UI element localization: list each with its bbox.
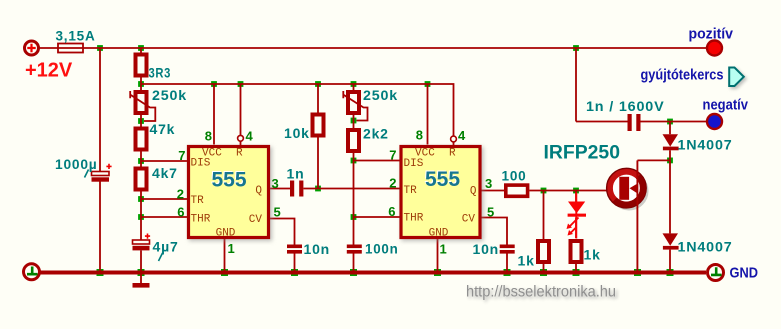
svg-text:4: 4 bbox=[246, 129, 254, 144]
svg-text:THR: THR bbox=[191, 214, 211, 226]
wire pin1 U1 to rail bbox=[224, 239, 226, 271]
wire 1000u column upper bbox=[99, 48, 101, 172]
svg-text:2k2: 2k2 bbox=[363, 126, 389, 142]
svg-text:7: 7 bbox=[389, 148, 396, 163]
svg-text:Q: Q bbox=[255, 185, 262, 197]
svg-text:GND: GND bbox=[429, 228, 449, 240]
svg-text:Q: Q bbox=[470, 186, 477, 198]
svg-text:GND: GND bbox=[730, 265, 759, 282]
IC U1 555 bbox=[189, 147, 269, 240]
resistor R2 47k bbox=[136, 129, 147, 150]
svg-text:1k: 1k bbox=[584, 247, 601, 263]
svg-text:DIS: DIS bbox=[191, 158, 211, 170]
junction squares group bbox=[97, 45, 674, 276]
ground symbol right GND bbox=[708, 265, 724, 281]
svg-text:1N4007: 1N4007 bbox=[678, 137, 733, 153]
svg-text:1: 1 bbox=[440, 242, 447, 257]
svg-text:pozitív: pozitív bbox=[689, 26, 734, 43]
node THR U2 bbox=[351, 214, 357, 220]
node coupling cap to TR U2 bbox=[315, 186, 321, 192]
terminal negativ bbox=[707, 114, 722, 129]
node vcc bus at pin8 U2 bbox=[425, 81, 431, 87]
svg-text:http://bsselektronika.hu: http://bsselektronika.hu bbox=[466, 284, 616, 301]
wire to HV cap bbox=[576, 121, 628, 123]
wire Q U2 to 100 resistor bbox=[481, 190, 504, 192]
arrow ignition coil connector bbox=[729, 68, 744, 87]
wire pin1 U2 to rail bbox=[437, 239, 439, 271]
node rail at 10n C2 bbox=[291, 269, 298, 276]
wire pin8 U1 drop bbox=[213, 84, 215, 145]
ground bar below rail bbox=[133, 274, 150, 285]
wire diode D1 top bbox=[669, 122, 671, 135]
node rail at pin1 U1 bbox=[221, 269, 228, 276]
node rail at 4u7 bbox=[138, 269, 145, 276]
ground rail bbox=[40, 271, 707, 275]
svg-text:+12V: +12V bbox=[25, 60, 73, 82]
wire 3R3 top bbox=[140, 48, 142, 53]
wire 1000u column lower bbox=[99, 182, 101, 271]
node rail at pin1 U2 bbox=[434, 269, 441, 276]
wire TR U1 bbox=[141, 198, 188, 200]
svg-text:2: 2 bbox=[389, 176, 396, 191]
capacitor C4 1n coupling bbox=[290, 181, 303, 197]
svg-text:DIS: DIS bbox=[404, 158, 424, 170]
node THR U1 bbox=[138, 214, 144, 220]
node gate at LED bbox=[573, 188, 579, 194]
svg-text:4k7: 4k7 bbox=[152, 165, 178, 181]
wire CV U2 to 10n C5 bbox=[481, 218, 507, 245]
capacitor C2 10n bbox=[287, 245, 302, 254]
label C1 mu tail bbox=[85, 170, 89, 178]
svg-text:250k: 250k bbox=[152, 87, 187, 103]
wire pin8 U2 drop bbox=[427, 84, 429, 145]
wire 47k to 4k7 bbox=[140, 152, 142, 167]
wire 4k7 to 4u7 cap bbox=[140, 192, 142, 241]
svg-text:555: 555 bbox=[425, 168, 460, 191]
node rail at MOSFET source bbox=[634, 269, 641, 276]
wire 2k2 to 100n cap bbox=[353, 153, 355, 245]
wire 1k R7 drop bbox=[543, 191, 545, 242]
svg-text:negatív: negatív bbox=[703, 97, 749, 114]
wire MOSFET source down bbox=[636, 204, 638, 271]
svg-text:CV: CV bbox=[249, 214, 263, 226]
svg-text:3: 3 bbox=[272, 176, 279, 191]
svg-text:5: 5 bbox=[274, 205, 281, 220]
capacitor C3 4u7 electrolytic bbox=[133, 234, 151, 251]
resistor R1 3R3 bbox=[136, 55, 147, 76]
wire drain node to diode D2 bbox=[669, 160, 671, 233]
resistor R7 1k bbox=[538, 241, 549, 262]
resistor R5 2k2 bbox=[348, 130, 359, 151]
wire vcc bus bbox=[141, 84, 454, 136]
svg-text:1n / 1600V: 1n / 1600V bbox=[586, 98, 665, 114]
wire drain horizontal bbox=[637, 159, 670, 161]
node HV cap to diode D1 bbox=[667, 119, 673, 125]
wire LED to 1k R8 bbox=[575, 218, 577, 239]
node gate at 1k R7 bbox=[541, 188, 547, 194]
node drain to diode column bbox=[667, 158, 673, 164]
wire fuse to pozitiv terminal bbox=[83, 47, 707, 49]
wire 4u7 to rail bbox=[140, 251, 142, 271]
svg-text:1k: 1k bbox=[518, 253, 535, 269]
svg-text:gyújtótekercs: gyújtótekercs bbox=[641, 67, 724, 84]
svg-text:10n: 10n bbox=[304, 241, 331, 257]
svg-text:CV: CV bbox=[462, 214, 476, 226]
capacitor C6 100n bbox=[347, 245, 362, 254]
svg-text:R: R bbox=[236, 148, 243, 160]
node top wire at output column bbox=[573, 45, 579, 51]
node pot P2 wiper bbox=[351, 118, 357, 124]
svg-text:1000µ: 1000µ bbox=[55, 156, 98, 172]
svg-text:100: 100 bbox=[502, 168, 527, 184]
node rail at 1k R7 bbox=[540, 269, 547, 276]
svg-text:1N4007: 1N4007 bbox=[678, 239, 733, 255]
terminal pozitiv bbox=[707, 41, 722, 56]
label C3 mu tail bbox=[159, 253, 163, 261]
wire THR U2 bbox=[354, 216, 400, 218]
wire pot P1 to 47k bbox=[140, 115, 142, 127]
svg-text:2: 2 bbox=[177, 187, 184, 202]
svg-text:6: 6 bbox=[388, 204, 395, 219]
wire 10n C2 to rail bbox=[294, 254, 296, 271]
node vcc bus at 250k P2 bbox=[351, 81, 357, 87]
svg-text:THR: THR bbox=[404, 213, 424, 225]
wire 100 resistor to gate bbox=[529, 190, 619, 192]
wire pot P2 to 2k2 bbox=[353, 115, 355, 128]
diode D1 1N4007 bbox=[663, 134, 679, 150]
node rail at 100n bbox=[350, 269, 357, 276]
wires group bbox=[39, 48, 707, 271]
ground symbol left bbox=[24, 264, 40, 280]
pin 4 U1 reset circle bbox=[238, 135, 244, 141]
svg-text:10k: 10k bbox=[284, 125, 310, 141]
svg-text:IRFP250: IRFP250 bbox=[544, 143, 621, 164]
wire diode D2 to rail bbox=[669, 250, 671, 271]
svg-text:5: 5 bbox=[487, 205, 494, 220]
wire 1n cap to TR U2 bbox=[304, 188, 400, 190]
MOSFET Q1 IRFP250 bbox=[607, 168, 647, 208]
node vcc bus at pin8 U1 bbox=[211, 81, 217, 87]
svg-text:8: 8 bbox=[205, 129, 212, 144]
svg-text:1: 1 bbox=[228, 241, 235, 256]
wire HV cap to negativ terminal bbox=[640, 121, 707, 123]
fuse F1 3,15A bbox=[58, 44, 83, 53]
wire 100n to rail bbox=[353, 254, 355, 271]
svg-text:3R3: 3R3 bbox=[149, 65, 172, 81]
wire Q U1 to 1n cap bbox=[270, 188, 291, 190]
wire MOSFET drain up bbox=[636, 160, 638, 173]
resistor R8 1k bbox=[571, 241, 582, 262]
wire DIS U2 bbox=[354, 160, 400, 162]
IC U2 555 bbox=[401, 147, 480, 240]
diode D2 1N4007 bbox=[663, 233, 679, 249]
wire pin4 U1 stub bbox=[240, 142, 242, 146]
node DIS U1 bbox=[138, 158, 144, 164]
svg-text:R: R bbox=[449, 148, 456, 160]
svg-text:8: 8 bbox=[416, 128, 423, 143]
node top wire at 1000u column bbox=[97, 45, 103, 51]
capacitor C1 1000u electrolytic bbox=[92, 164, 112, 182]
terminal +12V bbox=[25, 41, 39, 55]
wire terminal to fuse bbox=[39, 47, 58, 49]
svg-text:47k: 47k bbox=[150, 121, 176, 137]
node rail at diode D2 bbox=[667, 269, 674, 276]
wire 10k top bbox=[317, 84, 319, 113]
node vcc bus at 10k bbox=[315, 81, 321, 87]
svg-text:7: 7 bbox=[178, 148, 185, 163]
wire diode D1 to drain node bbox=[669, 150, 671, 160]
wire 1k R8 to rail bbox=[575, 263, 577, 271]
wire THR U1 bbox=[141, 216, 188, 218]
svg-text:3,15A: 3,15A bbox=[56, 28, 96, 44]
capacitor C5 10n bbox=[500, 245, 515, 254]
potentiometer P1 250k body bbox=[136, 92, 147, 113]
node DIS U2 bbox=[351, 158, 357, 164]
wire 1k R7 to rail bbox=[543, 264, 545, 271]
svg-text:555: 555 bbox=[211, 169, 246, 192]
wire pin4 U1 drop bbox=[240, 84, 242, 135]
wire DIS U1 bbox=[141, 160, 188, 162]
resistor R6 100 bbox=[506, 185, 528, 196]
pin 4 U2 reset circle bbox=[451, 136, 457, 142]
wire LED anode drop bbox=[575, 191, 577, 203]
node top wire at 3R3 column bbox=[138, 45, 144, 51]
node pot P1 wiper bbox=[138, 118, 144, 124]
wire CV U1 to 10n bbox=[270, 219, 295, 245]
wire pin4 U2 stub bbox=[453, 142, 455, 145]
wire output column down bbox=[575, 48, 577, 122]
node TR U1 bbox=[138, 196, 144, 202]
svg-text:TR: TR bbox=[191, 195, 205, 207]
node rail at 1000u bbox=[97, 269, 104, 276]
svg-text:1n: 1n bbox=[287, 166, 305, 182]
node rail at 1k R8 bbox=[573, 269, 580, 276]
potentiometer P2 250k body bbox=[348, 92, 359, 113]
svg-text:6: 6 bbox=[177, 205, 184, 220]
node vcc bus at 3R3 bottom bbox=[138, 81, 144, 87]
wire 3R3 bottom to pot P1 bbox=[140, 78, 142, 91]
wire 10n C5 to rail bbox=[506, 254, 508, 271]
wire pot P2 top bbox=[353, 84, 355, 90]
node vcc bus at pin4 U1 bbox=[238, 81, 244, 87]
resistor R4 10k bbox=[313, 115, 324, 136]
node rail at 10n C5 bbox=[504, 269, 511, 276]
svg-text:10n: 10n bbox=[473, 241, 500, 257]
LED D3 bbox=[567, 193, 587, 239]
svg-text:4µ7: 4µ7 bbox=[153, 239, 179, 255]
svg-text:GND: GND bbox=[216, 228, 236, 240]
svg-text:TR: TR bbox=[404, 185, 418, 197]
svg-text:3: 3 bbox=[485, 176, 492, 191]
wire 10k bottom bbox=[317, 137, 319, 189]
capacitor C7 1n 1600V bbox=[628, 114, 641, 131]
svg-text:100n: 100n bbox=[365, 241, 399, 257]
svg-text:250k: 250k bbox=[363, 87, 398, 103]
svg-text:4: 4 bbox=[458, 128, 466, 143]
resistor R3 4k7 bbox=[136, 169, 147, 190]
